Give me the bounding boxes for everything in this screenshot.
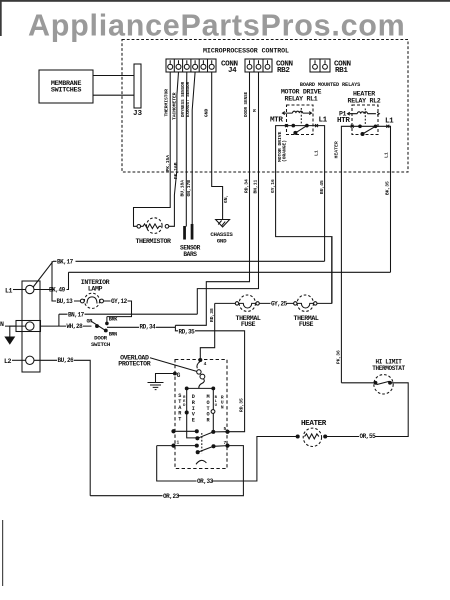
relay RL2 dashed box (352, 105, 378, 135)
label OR,55 (359, 433, 376, 440)
door switch top contact tick (106, 317, 108, 323)
label OR,23 (163, 493, 180, 500)
svg-text:BK,17: BK,17 (57, 258, 74, 265)
svg-text:PK,15A: PK,15A (165, 155, 171, 172)
svg-text:BU,13: BU,13 (57, 298, 74, 305)
overload protector squiggle (197, 361, 200, 368)
svg-text:M: M (252, 109, 258, 112)
leader L2 (12, 359, 26, 361)
relay RL2 coil (348, 112, 376, 114)
wire RB2 pin2 neutral sense (197, 72, 258, 314)
thermal fuse 1 dashed circle (239, 295, 255, 311)
centrifugal switch line 2 left wire (157, 445, 197, 447)
svg-text:THERMISTOR: THERMISTOR (164, 89, 170, 117)
motor ground terminal (174, 372, 177, 375)
label RD,34 (139, 324, 156, 331)
rail BN,17 neutral (59, 313, 197, 315)
overload circle 1 (197, 370, 201, 374)
svg-text:TACHOMETER: TACHOMETER (171, 92, 177, 120)
wire J4 pin4 to sensor bar (192, 72, 195, 225)
thermal fuse 1 element (239, 303, 256, 308)
bottom-left edge line (2, 520, 3, 586)
overload circle 2 (200, 374, 205, 379)
svg-text:PK,36: PK,36 (335, 350, 341, 364)
switch 1 blade (197, 432, 213, 438)
heater terminals (296, 435, 299, 438)
thermistor dashed circle (147, 218, 163, 234)
svg-text:RB2: RB2 (277, 67, 290, 75)
J4 pin circles (168, 64, 215, 69)
wire RL2 L1 down (388, 126, 391, 272)
motor winding bus (187, 387, 214, 389)
wire J4 pin6 to chassis gnd (212, 72, 223, 220)
svg-text:HEATER: HEATER (334, 141, 340, 158)
switch 1 to right terminal (213, 431, 227, 433)
svg-text:RD,34: RD,34 (244, 179, 250, 193)
top border line (0, 0, 450, 2)
svg-text:RED: RED (183, 396, 186, 408)
connector J3 (134, 64, 141, 108)
overload feed riser (200, 303, 214, 359)
wire L2 to bottom loop (34, 360, 90, 495)
neutral terminal box (16, 321, 41, 332)
svg-text:BLU: BLU (215, 396, 218, 408)
svg-text:DOOR SENSE: DOOR SENSE (245, 91, 249, 117)
hi limit thermostat dashed circle (374, 375, 393, 394)
svg-text:4: 4 (204, 361, 207, 367)
jog down to RD,35 wire (175, 327, 244, 431)
svg-text:RB1: RB1 (335, 67, 348, 75)
sensor bar 1 (184, 227, 186, 240)
svg-text:GN,17B: GN,17B (186, 180, 192, 197)
heater element zigzag (305, 434, 319, 439)
svg-text:BK,49: BK,49 (49, 287, 66, 294)
svg-text:HEATER: HEATER (353, 91, 375, 98)
relay RL2 blade (363, 126, 376, 134)
sensor bar 2 (191, 225, 193, 240)
svg-text:G: G (177, 372, 181, 379)
svg-text:GY,16: GY,16 (270, 179, 276, 193)
overload tail to bus (199, 379, 205, 389)
ground wire (156, 374, 175, 383)
label GY,12 (111, 298, 128, 305)
relay RL1 contact (287, 125, 317, 127)
svg-text:THERMISTOR: THERMISTOR (135, 238, 171, 245)
leader L1 (13, 289, 26, 291)
svg-text:OR,33: OR,33 (197, 478, 214, 485)
svg-text:DRYNESS SENSOR: DRYNESS SENSOR (182, 81, 186, 117)
label BK,49 (49, 287, 67, 294)
left border stub (0, 0, 2, 36)
chassis ground symbol (216, 220, 230, 228)
svg-text:WH,28: WH,28 (67, 323, 84, 330)
svg-text:RD,34: RD,34 (140, 324, 157, 331)
lamp terminals (80, 299, 84, 303)
svg-text:BRK: BRK (109, 317, 118, 323)
switch 2 blade (198, 446, 214, 452)
heater dashed circle (303, 428, 321, 446)
relay RL1 dashed box (287, 105, 314, 135)
svg-text:RD,38: RD,38 (209, 308, 215, 322)
svg-text:AppliancePartsPros.com: AppliancePartsPros.com (28, 9, 406, 43)
svg-text:N: N (0, 321, 4, 328)
relay RL1 mech link (300, 108, 302, 124)
svg-text:GY,25: GY,25 (271, 301, 288, 308)
membrane switches box (39, 70, 93, 103)
svg-text:BN,11: BN,11 (252, 179, 258, 193)
motor dashed box (175, 360, 227, 469)
thermal fuse 1 terminals (235, 302, 238, 305)
svg-text:RD,35: RD,35 (239, 398, 245, 412)
wire thermostat to heater right (327, 383, 408, 437)
label RD,35 (178, 329, 195, 336)
svg-text:DRIVE: DRIVE (192, 394, 196, 424)
svg-text:OR,23: OR,23 (163, 493, 180, 500)
svg-text:GND: GND (217, 238, 227, 245)
svg-text:EXHAUST SENSOR: EXHAUST SENSOR (187, 81, 191, 117)
wire lamp to door switch top contact (104, 301, 132, 317)
relay RL2 mech link (364, 109, 366, 125)
thermistor terminals (137, 225, 141, 229)
label OR,33 (197, 478, 214, 485)
wire MTR down (276, 126, 332, 304)
relay RL1 blade (295, 126, 307, 133)
svg-text:5: 5 (224, 426, 227, 432)
svg-text:BU,45: BU,45 (319, 180, 325, 194)
svg-text:MTR: MTR (270, 116, 283, 124)
jog up to door sense branch (174, 325, 176, 327)
wire BK,49 from L1 (34, 272, 69, 289)
connector RB1 box (310, 59, 330, 72)
wire J4 pin2 to thermistor right (169, 72, 179, 226)
connector J4 box (166, 59, 216, 72)
svg-text:L1: L1 (385, 117, 394, 125)
rail BK,49/L1 to heater relay (69, 271, 391, 273)
lamp filament (87, 297, 97, 304)
lamp feed from L1 (52, 261, 80, 301)
wire N to door switch (41, 325, 92, 327)
terminal N (26, 322, 34, 330)
interior lamp dashed circle (84, 293, 99, 308)
ground symbol (148, 383, 164, 390)
label GY,25 (271, 301, 288, 308)
svg-text:SWITCHES: SWITCHES (51, 87, 81, 95)
svg-text:RUN: RUN (221, 395, 224, 411)
thermostat contacts (374, 381, 377, 384)
overload pointer line (150, 358, 198, 372)
svg-text:GND: GND (204, 108, 210, 117)
J4 pin ticks (170, 60, 212, 64)
wire RL1 L1 down (317, 126, 325, 262)
terminal L1 (26, 285, 34, 293)
wire L1 diagonal to BK,17 rail (33, 261, 53, 287)
svg-text:MOTOR DRIVE: MOTOR DRIVE (281, 89, 322, 96)
microprocessor control dashed box (122, 40, 408, 173)
label BU,13 (56, 298, 74, 305)
centrifugal actuator arc (196, 460, 206, 464)
branch up to BN,17 rail (58, 314, 60, 326)
svg-text:GY,12: GY,12 (111, 298, 128, 305)
svg-text:J3: J3 (133, 110, 143, 118)
svg-text:L1: L1 (314, 150, 320, 156)
svg-text:7: 7 (224, 440, 227, 446)
wire HTR down (341, 126, 352, 383)
wire fuse2 to riser up (317, 237, 332, 304)
run winding column (212, 388, 214, 432)
switch 2 to right terminal (214, 445, 228, 448)
svg-text:(ORANGE): (ORANGE) (282, 140, 288, 162)
svg-text:RELAY RL2: RELAY RL2 (348, 98, 381, 105)
svg-text:PROTECTOR: PROTECTOR (118, 361, 150, 368)
svg-text:1: 1 (177, 440, 180, 446)
svg-text:L1: L1 (383, 152, 389, 158)
svg-text:MICROPROCESSOR CONTROL: MICROPROCESSOR CONTROL (203, 48, 289, 55)
label BN,17 (68, 311, 85, 318)
relay RL1 coil (283, 111, 311, 113)
svg-text:J4: J4 (228, 67, 237, 75)
svg-text:BK,35: BK,35 (385, 181, 391, 195)
svg-text:OR,55: OR,55 (360, 433, 377, 440)
start winding column (187, 388, 198, 438)
svg-text:HTR: HTR (337, 117, 350, 125)
svg-text:BU,26: BU,26 (58, 357, 75, 364)
wire door switch to RD,34 (107, 326, 175, 328)
svg-text:L1: L1 (5, 287, 13, 294)
leader N (5, 325, 26, 327)
svg-text:RD,35: RD,35 (179, 329, 196, 336)
motor switch2 external loop to heater (157, 437, 296, 482)
svg-text:THERMOSTAT: THERMOSTAT (372, 365, 405, 372)
svg-text:L1: L1 (319, 116, 328, 124)
svg-text:BARS: BARS (183, 251, 197, 258)
svg-text:FUSE: FUSE (299, 321, 314, 328)
svg-text:L2: L2 (4, 358, 12, 365)
svg-text:GN,: GN, (223, 195, 229, 203)
label WH,28 (66, 323, 83, 330)
wire fuse feed from riser (215, 302, 236, 304)
relay RL2 contact (352, 125, 388, 127)
svg-text:HEATER: HEATER (301, 420, 327, 428)
motor right terminal 2 to L2 loop (90, 446, 243, 496)
door switch blade (91, 321, 106, 330)
svg-text:BRN: BRN (109, 331, 117, 337)
svg-text:RELAY RL1: RELAY RL1 (285, 96, 318, 103)
svg-text:SWITCH: SWITCH (91, 341, 111, 348)
svg-text:BU,18A: BU,18A (179, 180, 185, 197)
wire HTR to thermostat (341, 382, 373, 384)
svg-text:START: START (178, 393, 182, 423)
label BK,17 (57, 258, 76, 265)
wire membrane to J3 upper (93, 75, 134, 77)
svg-text:FUSE: FUSE (241, 321, 256, 328)
terminal L2 (26, 356, 34, 364)
thermal fuse 2 element (297, 303, 314, 308)
motor top terminal (199, 359, 202, 362)
wire RB2 pin1 door sense (175, 72, 249, 325)
thermal fuse 2 terminals (294, 302, 297, 305)
wire between fuses (259, 302, 293, 304)
neutral ground arrow (10, 326, 16, 337)
rail BK,17 (53, 260, 325, 262)
svg-text:MOTOR: MOTOR (206, 394, 210, 424)
wire membrane to J3 lower (93, 94, 134, 96)
label BU,26 (57, 357, 74, 364)
thermal fuse 2 dashed circle (297, 295, 313, 311)
svg-text:BOARD MOUNTED RELAYS: BOARD MOUNTED RELAYS (300, 82, 360, 88)
mechanical link dashed (201, 433, 203, 454)
centrifugal switch line 1 (172, 430, 175, 433)
connector RB2 box (245, 59, 272, 72)
wire J4 pin1 to thermistor (134, 72, 171, 226)
wire J4 pin3 to sensor bar (185, 72, 188, 227)
svg-text:BN,17: BN,17 (68, 311, 85, 318)
svg-text:LAMP: LAMP (88, 286, 103, 293)
thermistor resistor zigzag (141, 224, 162, 229)
power terminal block (22, 281, 40, 372)
svg-text:PK,16B: PK,16B (173, 162, 179, 179)
